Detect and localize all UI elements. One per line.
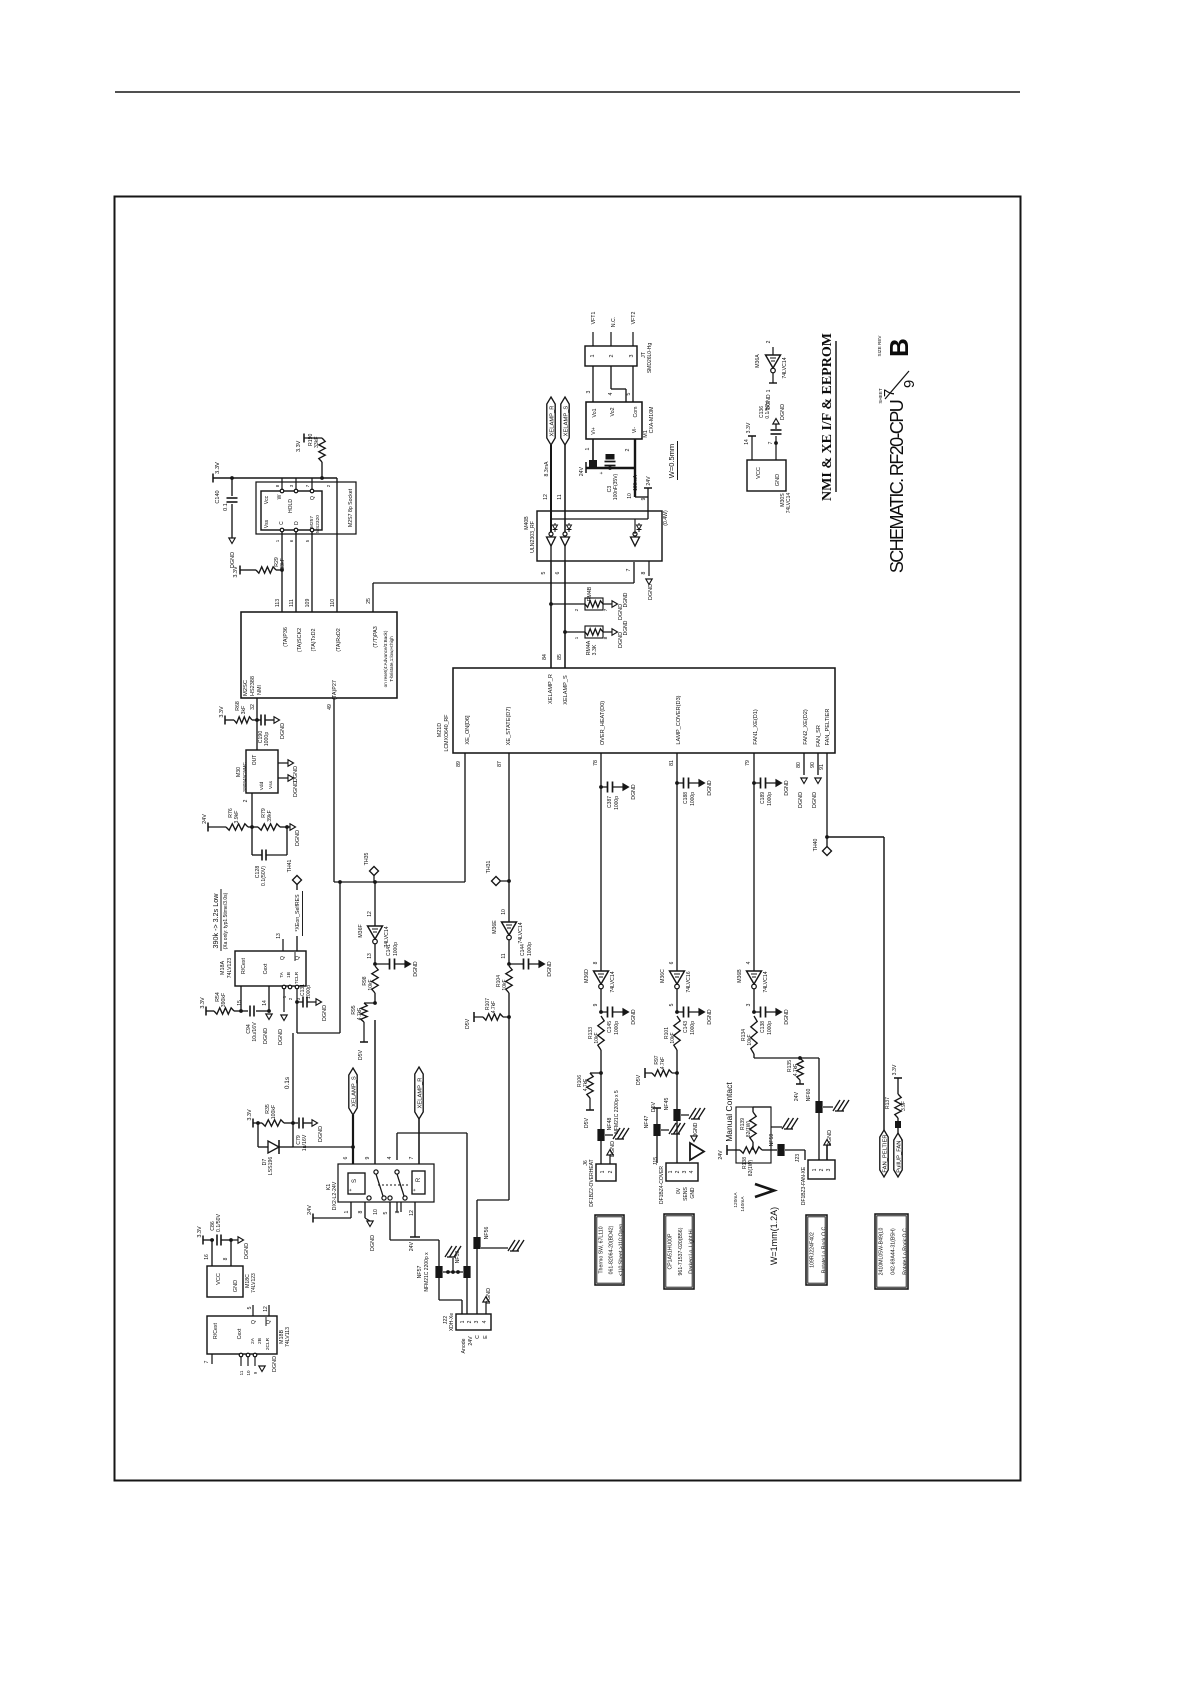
wire FAN_SR pin90 DGND	[817, 753, 819, 775]
ground DGND (J23 pin2)	[826, 1145, 828, 1160]
svg-text:SMD26L0-Hg: SMD26L0-Hg	[647, 343, 653, 374]
darlington driver A (XELAMP_R)	[549, 532, 553, 536]
net XELAMP_R (top)	[547, 397, 555, 445]
3.3V supply (R35)	[252, 1119, 254, 1128]
svg-text:HS2388: HS2388	[250, 676, 256, 696]
svg-text:CXA-M10M: CXA-M10M	[649, 407, 655, 434]
wire NF47 to J15 pin1	[656, 1136, 658, 1163]
wire FAN2_XE pin80 DGND	[803, 753, 805, 775]
svg-text:(TA)P36: (TA)P36	[283, 627, 289, 647]
svg-text:B: B	[884, 338, 914, 357]
svg-text:FAN_PELTIER: FAN_PELTIER	[882, 1134, 888, 1172]
svg-text:LAMP_COVER(D3): LAMP_COVER(D3)	[676, 695, 682, 744]
svg-text:0.1(50V): 0.1(50V)	[261, 866, 267, 886]
svg-text:DGND: DGND	[293, 781, 299, 797]
filter NF59	[771, 1149, 777, 1151]
svg-text:1: 1	[574, 636, 580, 639]
svg-text:2: 2	[675, 1170, 681, 1173]
svg-text:DGND: DGND	[278, 1029, 284, 1045]
net FAN_PELTIER	[880, 1130, 888, 1177]
svg-text:VFT2: VFT2	[631, 312, 637, 325]
svg-text:NFM21C 2200p x 5: NFM21C 2200p x 5	[614, 1090, 620, 1134]
svg-text:10kF: 10kF	[594, 1032, 600, 1043]
svg-text:R137: R137	[885, 1097, 891, 1109]
svg-text:(TA)TxD2: (TA)TxD2	[311, 629, 317, 652]
svg-text:81: 81	[669, 760, 675, 766]
resistor R97 4.7kF	[652, 1070, 672, 1076]
svg-text:7: 7	[768, 441, 774, 444]
svg-text:S80845CNMC: S80845CNMC	[242, 762, 247, 792]
svg-text:120mA: 120mA	[733, 1192, 739, 1208]
svg-text:DX2-L2-24V: DX2-L2-24V	[332, 1181, 338, 1210]
svg-text:XELAMP_R: XELAMP_R	[549, 406, 555, 437]
svg-text:4.7kF: 4.7kF	[357, 1008, 363, 1021]
svg-text:Q: Q	[251, 1320, 257, 1324]
svg-text:1000p: 1000p	[393, 942, 399, 956]
svg-text:C188: C188	[683, 792, 689, 804]
svg-text:49: 49	[327, 704, 333, 710]
ic M30S 74LVC14 pwr	[747, 460, 786, 491]
svg-text:XELAMP_R: XELAMP_R	[417, 1078, 423, 1109]
svg-text:180mA: 180mA	[633, 474, 639, 491]
svg-text:1u/16V: 1u/16V	[302, 1134, 308, 1151]
svg-text:+: +	[348, 1188, 354, 1191]
svg-text:T-bristate,1:low,H:high: T-bristate,1:low,H:high	[389, 636, 394, 682]
current note arrow 120mA-140mA	[755, 1184, 774, 1197]
svg-text:78: 78	[593, 760, 599, 766]
24V (relay pin12)	[414, 1202, 416, 1237]
svg-text:390k -> 3.2s Low: 390k -> 3.2s Low	[211, 893, 220, 949]
svg-text:2CLR: 2CLR	[265, 1337, 271, 1350]
svg-text:VCC: VCC	[756, 467, 762, 479]
chassis ground (NF45)	[681, 1114, 689, 1116]
wire relay pin3 stub	[400, 1202, 402, 1212]
wire NMI	[256, 698, 258, 720]
ground DGND (relay pin8)	[364, 1202, 366, 1218]
svg-text:74LV123: 74LV123	[227, 958, 233, 978]
svg-text:10: 10	[246, 1370, 251, 1376]
svg-text:74LVC14: 74LVC14	[782, 357, 788, 378]
capacitor C86 0.1/50V	[216, 1235, 218, 1246]
resistor R35 100kF	[262, 1120, 284, 1126]
svg-text:FAN2_XE(D2): FAN2_XE(D2)	[803, 709, 809, 745]
resistor R104 10kF	[506, 966, 512, 993]
wire NF56 to J22 pin3	[476, 1249, 478, 1314]
svg-text:24V: 24V	[794, 1091, 800, 1101]
svg-text:14: 14	[744, 439, 750, 445]
svg-text:4.7kF: 4.7kF	[793, 1064, 799, 1077]
svg-text:2: 2	[819, 1168, 825, 1171]
svg-text:DGND: DGND	[707, 780, 713, 796]
inverter M36F 74LVC14	[368, 926, 383, 939]
svg-text:24V: 24V	[468, 1336, 474, 1346]
3.3V supply (M18C)	[202, 1236, 204, 1245]
svg-text:XELAMP_S: XELAMP_S	[351, 1076, 357, 1107]
darlington driver C (PA3)	[633, 532, 637, 536]
24V supply (M1)	[589, 460, 597, 468]
svg-text:74LVC16: 74LVC16	[686, 971, 692, 992]
svg-text:4.7kF: 4.7kF	[660, 1057, 666, 1070]
svg-text:Q: Q	[266, 1320, 272, 1324]
svg-text:16: 16	[204, 1254, 210, 1260]
svg-text:M36D: M36D	[584, 969, 590, 983]
svg-text:3: 3	[682, 1170, 688, 1173]
svg-text:NF56: NF56	[484, 1227, 490, 1240]
inverter M36A 74LVC14 (spare)	[772, 347, 774, 355]
svg-text:25: 25	[366, 598, 372, 604]
terminal TH31	[507, 879, 511, 883]
svg-text:D5V: D5V	[584, 1117, 590, 1128]
svg-text:4: 4	[689, 1170, 695, 1173]
relay coil R	[412, 1171, 425, 1194]
svg-text:8.3mA: 8.3mA	[544, 461, 550, 477]
svg-text:M36F: M36F	[358, 924, 364, 937]
svg-text:10: 10	[501, 909, 507, 915]
svg-text:C145: C145	[607, 1021, 613, 1033]
svg-text:C138: C138	[760, 1021, 766, 1033]
connector J23 DF1BZ3-FAN-XE	[808, 1160, 835, 1179]
wire to M36F	[374, 882, 376, 926]
svg-text:8: 8	[358, 1210, 364, 1213]
svg-text:HOLD: HOLD	[288, 499, 294, 513]
net XELAMP_S	[349, 1068, 357, 1115]
svg-text:Rotate:Lo,Rock:O.C: Rotate:Lo,Rock:O.C	[903, 1228, 909, 1275]
svg-text:24V: 24V	[409, 1241, 415, 1251]
svg-text:DGND: DGND	[784, 780, 790, 796]
resistor network RM4A 3.3K	[565, 631, 585, 633]
note 109RJ224F402	[806, 1215, 827, 1285]
capacitor C138 1000p	[752, 1010, 756, 1014]
svg-text:(TA)SCK2: (TA)SCK2	[297, 628, 303, 652]
wire NF57 to J22 pin1	[438, 1278, 440, 1300]
svg-text:DGND: DGND	[322, 1005, 328, 1021]
svg-text:DGND: DGND	[413, 961, 419, 977]
svg-text:5: 5	[383, 1211, 389, 1214]
svg-text:7: 7	[603, 608, 609, 611]
svg-text:9: 9	[901, 380, 918, 388]
svg-text:M36B: M36B	[737, 969, 743, 983]
capacitor C131 1000p	[296, 989, 298, 1002]
svg-text:R/Cext: R/Cext	[213, 1323, 219, 1339]
svg-text:87: 87	[497, 761, 503, 767]
svg-text:M36C: M36C	[660, 969, 666, 983]
resistor R139 82(1W)	[750, 1112, 756, 1142]
svg-text:D5V: D5V	[465, 1018, 471, 1029]
svg-text:90: 90	[810, 762, 816, 768]
svg-text:3.3V: 3.3V	[233, 566, 239, 578]
resistor R98 10kF	[372, 966, 378, 993]
svg-text:C141: C141	[386, 944, 392, 956]
svg-text:DGND: DGND	[648, 584, 654, 600]
svg-text:1: 1	[344, 1210, 350, 1213]
svg-text:TH35: TH35	[364, 853, 370, 866]
capacitor C140 0.1	[231, 478, 233, 496]
terminal TH41	[293, 876, 302, 885]
svg-text:3.3V: 3.3V	[197, 1226, 203, 1238]
svg-text:6: 6	[555, 571, 561, 574]
ic M30 S80845CNMC	[246, 750, 278, 793]
wire R134 to NF60	[753, 1054, 755, 1058]
svg-text:3: 3	[474, 1320, 480, 1323]
wire NF59 to J23	[785, 1149, 805, 1151]
wire NF45 to J15 pin3	[676, 1121, 678, 1163]
wire eeprom pin3 to rail	[295, 478, 297, 489]
svg-text:DGND: DGND	[784, 1009, 790, 1025]
filter NF60	[815, 1101, 822, 1113]
filter NF58	[463, 1266, 470, 1278]
wire FAN_PELTIER pin91	[826, 753, 828, 847]
svg-text:NMI & XE I/F & EEPROM: NMI & XE I/F & EEPROM	[820, 333, 835, 501]
svg-text:74LVC14: 74LVC14	[786, 493, 792, 514]
svg-text:100kF: 100kF	[271, 1105, 277, 1119]
resistor R138 82(1W)	[740, 1147, 762, 1153]
svg-text:Vss: Vss	[264, 519, 270, 528]
svg-text:13: 13	[276, 933, 282, 939]
wire 0.1s net	[292, 1033, 294, 1123]
svg-text:2: 2	[608, 1170, 614, 1173]
svg-text:9: 9	[365, 1156, 371, 1159]
wire XELAMP_S to relay pin8	[352, 1115, 354, 1164]
driver ic M40B ULN2003_RF	[537, 511, 662, 561]
svg-text:110: 110	[330, 599, 336, 607]
svg-text:1000p: 1000p	[306, 985, 312, 999]
resistor R190 33kF	[303, 434, 305, 443]
svg-text:TA: TA	[279, 971, 285, 978]
wire driver A out	[550, 546, 552, 562]
chassis ground (NF48)	[605, 1134, 613, 1136]
wire LAMP_COVER pin81	[676, 753, 678, 783]
svg-text:11: 11	[239, 1370, 244, 1375]
svg-text:LCMXO640_RF: LCMXO640_RF	[444, 715, 450, 752]
svg-text:M257: M257	[309, 516, 315, 528]
svg-text:6: 6	[669, 961, 675, 964]
svg-text:VCC: VCC	[216, 1273, 222, 1285]
svg-text:NF59: NF59	[769, 1134, 775, 1147]
svg-text:DF1BZ3-FAN-XE: DF1BZ3-FAN-XE	[801, 1166, 807, 1205]
wire JT-1 to M1	[592, 366, 594, 402]
svg-text:3.3V: 3.3V	[296, 440, 302, 452]
inverter M36B 74LVC14	[747, 971, 762, 984]
internal COM rail	[551, 518, 648, 520]
svg-text:5: 5	[247, 1306, 253, 1309]
svg-text:Rotate:Lo,Rock O.C: Rotate:Lo,Rock O.C	[822, 1227, 828, 1274]
wire JT-3 to M1	[632, 366, 634, 402]
svg-text:0.1: 0.1	[223, 503, 229, 511]
svg-text:1000p: 1000p	[614, 1021, 620, 1035]
chassis ground (NF60)	[823, 1106, 833, 1108]
svg-text:(TA)P27: (TA)P27	[332, 680, 338, 700]
svg-text:Vcc: Vcc	[264, 495, 270, 504]
filter NF57	[435, 1266, 442, 1278]
svg-text:3.3V: 3.3V	[215, 462, 221, 474]
net XELAMP_S (top)	[561, 397, 569, 445]
svg-text:XE_ON[D6]: XE_ON[D6]	[465, 715, 471, 745]
resistor R107 4.7kF	[483, 1014, 503, 1020]
svg-text:7: 7	[626, 568, 632, 571]
svg-text:7: 7	[409, 1156, 415, 1159]
wire pin110 top run	[336, 478, 338, 612]
svg-text:8: 8	[593, 961, 599, 964]
svg-text:<1)0:Sheet,>110:Open: <1)0:Sheet,>110:Open	[619, 1224, 625, 1277]
svg-text:W=0.5mm: W=0.5mm	[667, 444, 676, 478]
wire driver B out	[564, 546, 566, 562]
svg-text:24V: 24V	[718, 1150, 724, 1160]
capacitor C145 1000p	[599, 1010, 603, 1014]
box manual contact	[736, 1107, 771, 1163]
svg-text:113: 113	[275, 599, 281, 607]
svg-text:11: 11	[557, 494, 563, 499]
svg-text:74LV123: 74LV123	[251, 1273, 257, 1293]
svg-text:4: 4	[746, 961, 752, 964]
resistor R95 4.7kF	[364, 1002, 375, 1004]
svg-text:10: 10	[627, 493, 633, 499]
ground DGND (pin14)	[266, 1014, 272, 1020]
svg-text:8: 8	[641, 571, 647, 574]
svg-text:DGND: DGND	[631, 1009, 637, 1025]
svg-text:1: 1	[668, 1170, 674, 1173]
svg-text:DGND: DGND	[610, 1141, 616, 1157]
svg-text:1: 1	[590, 355, 596, 358]
svg-text:3.3V: 3.3V	[892, 1064, 898, 1075]
svg-text:84: 84	[542, 654, 548, 660]
svg-text:OUT: OUT	[252, 755, 258, 766]
svg-text:XELAMP_S: XELAMP_S	[563, 675, 569, 705]
svg-text:8: 8	[223, 1257, 229, 1260]
schematic border frame	[115, 197, 1021, 1481]
svg-text:MS2320: MS2320	[315, 515, 321, 533]
connector J22 XH-Xe	[456, 1314, 491, 1330]
svg-text:6: 6	[343, 1156, 349, 1159]
svg-text:DGND: DGND	[263, 1028, 269, 1044]
wire pin14	[268, 986, 270, 1011]
ic M18B 74LV113	[207, 1316, 277, 1354]
svg-text:Cext: Cext	[237, 1328, 243, 1339]
3.3V supply (EEPROM rail)	[212, 474, 214, 483]
svg-text:E: E	[483, 1335, 489, 1339]
svg-text:DGND: DGND	[293, 766, 299, 782]
svg-text:13: 13	[367, 953, 373, 959]
ground DGND (ULN pin8)	[648, 561, 650, 576]
svg-text:2: 2	[243, 799, 249, 802]
svg-text:XDH-Xe: XDH-Xe	[449, 1313, 455, 1332]
svg-text:NMI: NMI	[257, 685, 263, 695]
svg-text:DGND: DGND	[780, 404, 786, 420]
wire M36F net to relay pin9	[374, 1020, 376, 1164]
svg-text:3kF: 3kF	[241, 706, 247, 715]
wire XELAMP_S into ULN	[564, 445, 566, 534]
svg-text:390kF: 390kF	[221, 993, 227, 1007]
svg-text:4.7kF: 4.7kF	[583, 1079, 589, 1092]
svg-text:109RJ224F402: 109RJ224F402	[810, 1232, 816, 1268]
capacitor C189 1000p	[752, 781, 756, 785]
cpu M2SC HS2388	[241, 612, 397, 698]
wire driver C in	[634, 519, 636, 534]
wire CPU pin25	[372, 583, 374, 612]
relay contacts	[374, 1170, 378, 1174]
svg-text:1000p: 1000p	[264, 732, 270, 747]
svg-text:24V: 24V	[307, 1205, 313, 1215]
svg-text:XELAMP_S: XELAMP_S	[563, 406, 569, 437]
svg-text:3.3K: 3.3K	[592, 644, 598, 655]
svg-text:OVER_HEAT(D0): OVER_HEAT(D0)	[600, 701, 606, 745]
inverter M36D 74LVC14	[594, 971, 609, 984]
svg-text:DGND: DGND	[486, 1288, 492, 1304]
svg-text:1000p: 1000p	[767, 1021, 773, 1035]
svg-text:C144: C144	[520, 944, 526, 956]
svg-text:on reset(4:Advance/3:Back): on reset(4:Advance/3:Back)	[383, 630, 388, 687]
wire Vi+ bold rail	[586, 467, 635, 469]
svg-text:XELAMP_R: XELAMP_R	[548, 674, 554, 704]
svg-text:3.3V: 3.3V	[200, 997, 206, 1009]
svg-text:10: 10	[373, 1209, 379, 1215]
svg-text:R/Cext: R/Cext	[241, 958, 247, 974]
svg-text:Q: Q	[295, 956, 301, 960]
wire relay pin5 to NF57	[389, 1202, 391, 1240]
svg-text:79: 79	[745, 760, 751, 766]
capacitor C190 1000p	[257, 719, 261, 721]
svg-text:DGND: DGND	[295, 830, 301, 846]
svg-text:DF1BZ2-OVERHEAT: DF1BZ2-OVERHEAT	[589, 1159, 595, 1206]
svg-text:109: 109	[305, 599, 311, 608]
capacitor C3 100nF(35V) (electrolytic)	[605, 465, 616, 467]
svg-text:100nF(35V): 100nF(35V)	[613, 473, 619, 500]
wire JT-2 jog	[610, 366, 612, 389]
svg-text:PullUP_FAN_: PullUP_FAN_	[896, 1137, 902, 1173]
svg-text:2: 2	[766, 340, 772, 343]
sensor mark (J15)	[690, 1143, 704, 1160]
eeprom M257 MS2320	[261, 491, 322, 530]
svg-text:1000p: 1000p	[767, 792, 773, 806]
svg-text:12: 12	[263, 1306, 269, 1312]
ground DGND (pin1)	[283, 989, 285, 1012]
wire FAN1_XE pin79	[753, 753, 755, 783]
capacitor C141 1000p	[373, 962, 377, 966]
svg-text:Vi-: Vi-	[632, 427, 638, 434]
svg-text:M2S7 8p Socket: M2S7 8p Socket	[348, 488, 354, 527]
svg-text:89: 89	[456, 761, 462, 767]
terminal TH35	[370, 867, 379, 876]
svg-text:+: +	[412, 1188, 418, 1191]
svg-text:NF47: NF47	[644, 1116, 650, 1129]
capacitor C188 1000p	[675, 781, 679, 785]
svg-text:C387: C387	[607, 796, 613, 808]
svg-text:NF45: NF45	[664, 1098, 670, 1111]
svg-text:C: C	[475, 1335, 481, 1339]
svg-text:M36E: M36E	[492, 920, 498, 934]
ic M18A 74LV123	[235, 951, 306, 986]
svg-text:4: 4	[608, 392, 614, 395]
resistor R68 3kF	[224, 716, 226, 725]
svg-text:1000p: 1000p	[690, 792, 696, 806]
svg-text:DGND: DGND	[623, 592, 629, 607]
svg-text:C: C	[279, 521, 285, 525]
svg-text:9: 9	[641, 497, 647, 500]
svg-text:W: W	[277, 494, 283, 499]
svg-text:2B: 2B	[257, 1338, 263, 1344]
svg-text:DGND: DGND	[370, 1235, 376, 1251]
wire eeprom pin1 to CPU 113	[281, 532, 283, 612]
svg-text:DGND: DGND	[318, 1126, 324, 1142]
relay K1 DX2-L2-24V	[338, 1164, 434, 1202]
wire D7 to relay	[293, 1146, 353, 1148]
svg-text:DGND: DGND	[707, 1009, 713, 1025]
svg-text:3.3V: 3.3V	[247, 1109, 253, 1121]
svg-text:3: 3	[746, 1003, 752, 1006]
svg-text:(0.4W): (0.4W)	[663, 510, 669, 526]
wire NF57-NF58 link	[443, 1271, 463, 1273]
svg-text:CP1A51HU00P: CP1A51HU00P	[668, 1233, 674, 1270]
resistor R134 10kF	[751, 1016, 757, 1054]
